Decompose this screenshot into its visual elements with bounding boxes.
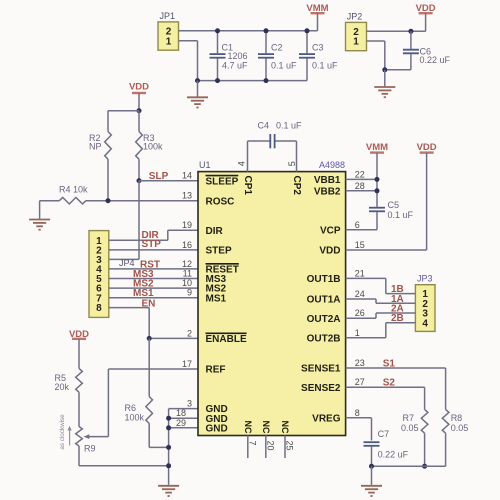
svg-text:MS1: MS1 [206, 293, 227, 304]
wire GND pin3 [169, 408, 198, 410]
wire C6 bottom to gnd node [385, 69, 411, 71]
capacitor C1 4.7uF 1206 [217, 31, 219, 54]
svg-text:C5: C5 [388, 200, 400, 210]
wire JP2 pin2 to VDD [367, 30, 426, 32]
wire to R2 [108, 110, 139, 112]
wire REF pin to pot [108, 368, 198, 370]
node C7 gnd junction [369, 464, 374, 469]
svg-text:S1: S1 [383, 359, 396, 370]
svg-text:6: 6 [355, 220, 360, 230]
node JP1 gnd junction [195, 78, 200, 83]
node VBB2 [375, 188, 380, 193]
svg-text:VDD: VDD [129, 81, 149, 92]
svg-text:VREG: VREG [312, 413, 341, 424]
node EN ENABLE junction [147, 336, 152, 341]
wire MS2 net JP4 pin6 [109, 287, 198, 289]
wire VREG to C7 [346, 417, 372, 419]
svg-text:C2: C2 [271, 42, 283, 52]
resistor R8 0.05 [442, 409, 449, 433]
node R6 gnd join [166, 445, 171, 450]
svg-text:R4 10k: R4 10k [59, 185, 88, 195]
svg-text:C7: C7 [378, 429, 390, 439]
svg-text:DIR: DIR [206, 226, 224, 237]
wire STP net JP4 pin2 [109, 249, 198, 251]
svg-text:VBB1: VBB1 [314, 175, 341, 186]
svg-text:CP1: CP1 [242, 176, 253, 196]
node SLP [137, 178, 142, 183]
capacitor C7 0.22uF [364, 442, 380, 446]
svg-text:3: 3 [187, 399, 192, 409]
ground bottom center [158, 486, 179, 496]
resistor R6 100k [146, 397, 153, 424]
svg-text:SLEEP: SLEEP [206, 176, 239, 187]
svg-text:OUT2B: OUT2B [307, 333, 341, 344]
svg-text:27: 27 [355, 377, 365, 387]
svg-text:NC: NC [280, 421, 290, 434]
node GND29 [166, 425, 171, 430]
connector JP3 [415, 285, 435, 332]
svg-text:STEP: STEP [206, 246, 232, 257]
wire VMM riser [317, 13, 319, 31]
svg-text:VMM: VMM [366, 142, 388, 153]
svg-text:0.1 uF: 0.1 uF [271, 60, 297, 70]
svg-text:VCP: VCP [320, 225, 341, 236]
ground below JP2 [384, 70, 386, 86]
svg-text:as clockwise: as clockwise [59, 414, 66, 450]
wire SLP down to JP4 pin3 [138, 181, 140, 260]
wire S1 net SENSE1 [346, 367, 446, 369]
capacitor C5 0.1uF [369, 208, 385, 212]
wire gnd rail under C1 C2 C3 [198, 80, 308, 82]
wiper arrow of R9 [89, 436, 109, 438]
wire R5 to R9 [78, 392, 80, 426]
svg-text:JP2: JP2 [347, 12, 363, 22]
svg-text:R9: R9 [84, 444, 96, 454]
svg-text:NP: NP [89, 142, 102, 152]
wire EN to ENABLE pin [149, 337, 198, 339]
svg-text:VBB2: VBB2 [314, 186, 341, 197]
svg-text:0.1 uF: 0.1 uF [312, 60, 338, 70]
wire OUT2A to JP3 pin3 [346, 317, 376, 319]
resistor R3 100k [138, 111, 140, 132]
svg-text:7: 7 [247, 441, 257, 446]
ground left of R4 [29, 220, 50, 230]
wire JP1 pin1 down to gnd rail [179, 40, 198, 42]
svg-text:U1: U1 [199, 160, 211, 170]
svg-text:9: 9 [187, 288, 192, 298]
svg-text:23: 23 [355, 358, 365, 368]
svg-text:8: 8 [96, 303, 102, 314]
svg-text:NC: NC [261, 421, 271, 434]
capacitor C4 0.1uF [247, 141, 249, 172]
wire OUT1B to JP3 pin1 [346, 277, 386, 279]
capacitor C6 0.22uF [410, 31, 412, 49]
svg-text:21: 21 [355, 268, 365, 278]
svg-text:1: 1 [353, 37, 359, 48]
node C1 top [215, 28, 220, 33]
node C2 bottom [264, 78, 269, 83]
svg-text:STP: STP [142, 239, 162, 250]
wire R6 to gnd rail [148, 424, 150, 448]
svg-text:0.22 uF: 0.22 uF [378, 450, 409, 460]
svg-text:0.1 uF: 0.1 uF [388, 210, 414, 220]
svg-text:12: 12 [182, 259, 192, 269]
svg-text:5: 5 [287, 161, 297, 166]
potentiometer R9 [76, 427, 83, 447]
op-amp U1 A4988 body [198, 172, 346, 436]
wire VBB2 [346, 190, 377, 192]
svg-text:R7: R7 [403, 413, 415, 423]
svg-text:4.7 uF: 4.7 uF [222, 60, 248, 70]
svg-text:OUT1A: OUT1A [307, 295, 341, 306]
pin NC 25 [284, 436, 286, 459]
svg-text:0.05: 0.05 [451, 423, 469, 433]
node C6 top [408, 29, 413, 34]
svg-text:CP2: CP2 [291, 176, 302, 196]
svg-text:0.22 uF: 0.22 uF [420, 55, 451, 65]
wire R9 bottom to gnd rail [78, 446, 80, 466]
wire SLP to SLEEP pin [139, 180, 198, 182]
svg-text:ENABLE: ENABLE [206, 334, 247, 345]
connector JP2 [346, 22, 367, 50]
svg-text:1: 1 [355, 328, 360, 338]
svg-text:10: 10 [182, 278, 192, 288]
svg-text:A4988: A4988 [319, 160, 345, 170]
svg-text:22: 22 [355, 169, 365, 179]
node bottom rail join [166, 463, 171, 468]
capacitor C3 0.1uF [306, 31, 308, 54]
wire JP2 pin1 to gnd [367, 40, 385, 42]
svg-text:11: 11 [183, 269, 192, 279]
svg-text:29: 29 [176, 418, 186, 428]
svg-text:OUT2A: OUT2A [307, 314, 341, 325]
svg-text:17: 17 [182, 359, 192, 369]
wire VDD to pin15 [426, 153, 428, 250]
wire VDD stem [138, 93, 140, 111]
svg-text:REF: REF [206, 365, 226, 376]
svg-text:VDD: VDD [319, 246, 340, 257]
wire GND pin18 [169, 417, 198, 419]
node C3 top [305, 28, 310, 33]
svg-text:GND: GND [206, 423, 228, 434]
svg-text:19: 19 [182, 220, 192, 230]
svg-text:SENSE2: SENSE2 [301, 383, 341, 394]
svg-text:EN: EN [142, 298, 156, 309]
wire sense gnd rail [372, 465, 446, 467]
wire S2 net SENSE2 [346, 386, 425, 388]
wire OUT1A to JP3 pin2 [346, 298, 376, 300]
svg-text:C3: C3 [312, 42, 324, 52]
svg-text:0.05: 0.05 [401, 423, 419, 433]
svg-text:R8: R8 [451, 413, 463, 423]
svg-text:8: 8 [355, 408, 360, 418]
svg-text:2B: 2B [391, 313, 404, 324]
resistor R7 0.05 [421, 409, 428, 433]
svg-text:24: 24 [355, 289, 365, 299]
svg-text:28: 28 [355, 181, 365, 191]
svg-text:20: 20 [265, 441, 275, 451]
node VDD R2 R3 [137, 108, 142, 113]
wire RST net JP4 pin4 [109, 268, 198, 270]
connector JP4 [89, 231, 109, 318]
svg-text:4: 4 [237, 161, 247, 166]
node R7 bottom [422, 464, 427, 469]
ground bottom right [371, 466, 373, 485]
wire gnd to R4 [40, 200, 60, 202]
node JP2 gnd junction [382, 67, 387, 72]
svg-text:16: 16 [182, 240, 192, 250]
svg-text:OUT1B: OUT1B [307, 274, 341, 285]
svg-text:2: 2 [187, 328, 192, 338]
wire JP1 pin2 to VMM rail [179, 30, 318, 32]
svg-text:100k: 100k [143, 142, 163, 152]
svg-text:SENSE1: SENSE1 [301, 364, 341, 375]
node ROSC R2 junction [106, 198, 111, 203]
svg-text:100k: 100k [125, 412, 145, 422]
wire EN down to R6 [148, 338, 150, 396]
resistor R4 10k [59, 197, 85, 204]
capacitor C2 0.1uF [265, 31, 267, 54]
resistor R2 NP [105, 132, 112, 160]
svg-text:18: 18 [176, 408, 186, 418]
svg-text:S2: S2 [383, 378, 396, 389]
svg-text:26: 26 [355, 308, 365, 318]
wire R3 down to SLP node [138, 159, 140, 181]
svg-text:JP1: JP1 [160, 11, 176, 21]
svg-text:JP3: JP3 [417, 274, 433, 284]
wire EN net JP4 pin8 [109, 307, 149, 309]
svg-text:4: 4 [422, 318, 428, 329]
svg-text:20k: 20k [55, 382, 70, 392]
svg-text:25: 25 [285, 441, 295, 451]
svg-text:14: 14 [182, 171, 192, 181]
svg-text:VDD: VDD [417, 142, 437, 153]
svg-text:JP4: JP4 [119, 258, 135, 268]
pin NC 7 [247, 436, 249, 459]
svg-text:C4: C4 [258, 120, 270, 130]
wire MS3 net JP4 pin5 [109, 278, 198, 280]
connector JP1 [158, 22, 179, 50]
svg-text:ROSC: ROSC [206, 196, 235, 207]
svg-text:0.1 uF: 0.1 uF [276, 120, 302, 130]
resistor R5 20k [76, 368, 83, 392]
pin NC 20 [265, 436, 267, 459]
svg-text:SLP: SLP [149, 171, 169, 182]
node C1 bottom [215, 78, 220, 83]
svg-text:13: 13 [182, 191, 192, 201]
wire OUT2B to JP3 pin4 [346, 337, 386, 339]
node GND18 [166, 416, 171, 421]
wire R2 to ROSC node [107, 159, 109, 201]
wire MS1 net JP4 pin7 [109, 297, 198, 299]
node VBB1 [375, 177, 380, 182]
svg-text:15: 15 [355, 240, 365, 250]
wire VBB1 [346, 178, 377, 180]
wire DIR net JP4 pin1 [109, 239, 168, 241]
svg-text:1: 1 [166, 36, 172, 47]
wire GND pin29 [169, 427, 198, 429]
wire R4 to ROSC pin [86, 200, 198, 202]
ground below JP1 [197, 81, 199, 97]
node C2 top [264, 28, 269, 33]
svg-text:NC: NC [243, 421, 253, 434]
